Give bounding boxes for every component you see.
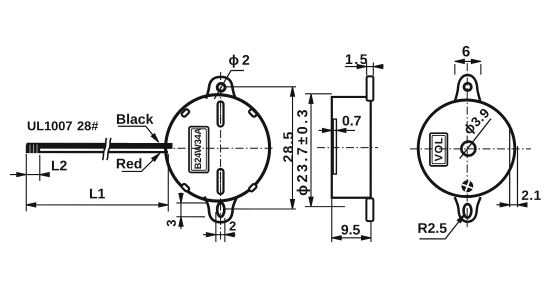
svg-text:3: 3 — [164, 220, 179, 227]
svg-text:2: 2 — [229, 218, 236, 233]
svg-text:28#: 28# — [77, 118, 98, 133]
svg-text:UL1007: UL1007 — [27, 118, 73, 133]
svg-text:Black: Black — [116, 111, 154, 127]
svg-text:0.7: 0.7 — [342, 113, 362, 129]
svg-text:B24W34A: B24W34A — [193, 128, 203, 170]
svg-text:L1: L1 — [89, 185, 106, 201]
svg-text:Red: Red — [116, 155, 142, 171]
svg-text:L2: L2 — [51, 157, 68, 173]
svg-text:ϕ23.7±0.3: ϕ23.7±0.3 — [295, 107, 311, 196]
svg-text:VOL: VOL — [433, 137, 445, 161]
svg-text:1.5: 1.5 — [345, 51, 369, 67]
svg-text:2.1: 2.1 — [521, 188, 541, 203]
svg-text:9.5: 9.5 — [341, 222, 361, 238]
svg-text:ϕ2: ϕ2 — [229, 52, 253, 68]
svg-text:6: 6 — [462, 43, 470, 60]
svg-text:R2.5: R2.5 — [417, 220, 447, 236]
svg-text:28.5: 28.5 — [280, 130, 296, 162]
